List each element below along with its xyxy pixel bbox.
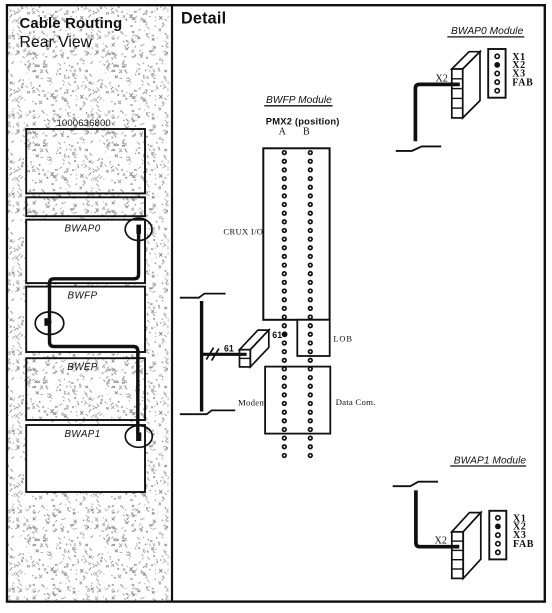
- svg-text:61: 61: [224, 344, 234, 354]
- BWAP1 plug (black square): [136, 432, 141, 441]
- BWAP0 pin strip box: [488, 49, 505, 98]
- cable tip inside BWAP1 connector: [455, 545, 459, 549]
- filled pin: position 61 on column A: [282, 331, 288, 337]
- svg-text:61: 61: [272, 330, 282, 340]
- svg-text:Modem: Modem: [238, 398, 266, 408]
- svg-text:Rear View: Rear View: [20, 34, 93, 51]
- svg-text:1000636800: 1000636800: [57, 118, 111, 129]
- svg-text:BWEP: BWEP: [67, 362, 98, 373]
- cable break symbol below BWAP0 cable: [396, 146, 441, 151]
- svg-text:FAB: FAB: [513, 539, 534, 550]
- pin column A of PMX2 connector field: [283, 151, 287, 458]
- svg-text:BWAP0: BWAP0: [64, 224, 100, 235]
- circle marker around BWFP plug: [35, 312, 64, 335]
- BWAP0 pin labels X1 X2 X3 FAB: [512, 52, 533, 89]
- svg-text:BWAP0 Module: BWAP0 Module: [451, 26, 524, 37]
- pin column B of PMX2 connector field: [309, 151, 313, 458]
- rack top box (textured): [26, 129, 145, 193]
- circle marker around BWAP1 plug: [125, 426, 152, 448]
- BWAP0 plug (black square): [136, 225, 141, 234]
- BWAP1 pin labels X1 X2 X3 FAB: [513, 513, 534, 550]
- label: BWFP Module (underlined): [264, 95, 332, 106]
- vertical separator between Rear View panel and Detail panel: [171, 5, 173, 601]
- rack narrow strip box: [26, 197, 145, 216]
- LOB box: [297, 320, 329, 356]
- svg-text:B: B: [303, 126, 310, 137]
- cable break symbol above BWAP1 cable: [393, 482, 438, 487]
- svg-text:LOB: LOB: [333, 334, 352, 343]
- svg-text:A: A: [279, 126, 287, 137]
- BWFP plug (black square) with stub to cable: [44, 318, 51, 326]
- svg-text:Data Com.: Data Com.: [336, 397, 376, 407]
- cable from X2 of BWAP0 connector: [415, 84, 459, 141]
- label: BWAP1 Module (underlined): [450, 455, 526, 466]
- cable to X2 of BWAP1 connector: [416, 490, 459, 546]
- module slot BWEP: [26, 358, 145, 420]
- cable stub from bus to 61 connector: [202, 353, 247, 356]
- svg-text:X2: X2: [435, 536, 447, 547]
- BWAP1 pin strip box: [489, 511, 506, 560]
- left panel textured background: [8, 6, 168, 600]
- svg-text:BWFP: BWFP: [68, 290, 98, 301]
- module slot BWAP0: [26, 220, 145, 283]
- cable slash marks //: [206, 348, 219, 361]
- cable break symbol (bottom of bus): [180, 410, 235, 414]
- BWAP1 connector (3D box): [452, 513, 481, 579]
- svg-text:FAB: FAB: [512, 77, 533, 88]
- circle marker around BWAP0 plug: [125, 218, 152, 240]
- cable bus vertical line: [200, 301, 203, 412]
- svg-text:X2: X2: [435, 73, 447, 84]
- svg-text:PMX2 (position): PMX2 (position): [266, 115, 340, 126]
- svg-text:BWAP1: BWAP1: [64, 429, 100, 440]
- BWAP1 pin strip circles (X2 filled): [495, 516, 501, 555]
- svg-text:Detail: Detail: [181, 9, 226, 27]
- module slot BWAP1: [26, 425, 145, 492]
- BWAP0 connector (3D box): [452, 52, 480, 118]
- svg-text:BWAP1 Module: BWAP1 Module: [454, 455, 527, 466]
- CRUX I/O connector field box: [263, 148, 329, 319]
- module slot BWFP: [26, 287, 145, 352]
- svg-text:Cable Routing: Cable Routing: [20, 16, 123, 32]
- label: BWAP0 Module (underlined): [447, 26, 524, 37]
- svg-text:CRUX I/O: CRUX I/O: [223, 227, 263, 237]
- BWAP0 pin strip circles (X2 filled): [494, 54, 500, 93]
- Modem / Data Com box: [265, 367, 330, 434]
- svg-text:BWFP Module: BWFP Module: [266, 95, 332, 106]
- cable run: BWAP0 plug down-left to BWFP plug, then down-right to BWAP1 plug: [50, 229, 139, 434]
- 61 connector plug (3D box): [240, 330, 269, 367]
- cable break symbol (top of bus): [180, 294, 226, 298]
